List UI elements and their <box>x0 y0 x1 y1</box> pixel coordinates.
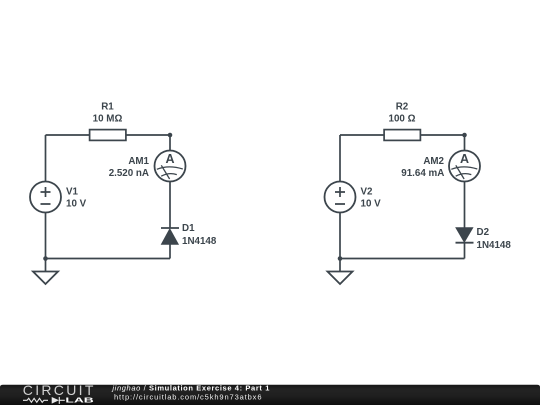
svg-text:10 V: 10 V <box>361 198 382 209</box>
svg-text:1N4148: 1N4148 <box>477 240 512 251</box>
svg-text:http://circuitlab.com/c5kh9n73: http://circuitlab.com/c5kh9n73atbx6 <box>114 392 262 401</box>
svg-text:A: A <box>460 152 469 166</box>
svg-text:V2: V2 <box>361 186 374 197</box>
svg-text:100 Ω: 100 Ω <box>389 113 416 124</box>
svg-text:D1: D1 <box>182 223 195 234</box>
svg-text:1N4148: 1N4148 <box>182 236 217 247</box>
svg-text:R1: R1 <box>101 101 114 112</box>
svg-text:A: A <box>165 152 174 166</box>
svg-text:D2: D2 <box>477 227 490 238</box>
svg-text:91.64 mA: 91.64 mA <box>401 168 444 179</box>
svg-text:R2: R2 <box>396 101 409 112</box>
svg-text:10 V: 10 V <box>66 198 87 209</box>
svg-text:10 MΩ: 10 MΩ <box>93 113 123 124</box>
svg-text:LAB: LAB <box>65 396 93 404</box>
svg-text:2.520 nA: 2.520 nA <box>109 168 149 179</box>
svg-text:AM2: AM2 <box>423 156 444 167</box>
svg-text:AM1: AM1 <box>128 156 149 167</box>
svg-text:V1: V1 <box>66 186 79 197</box>
